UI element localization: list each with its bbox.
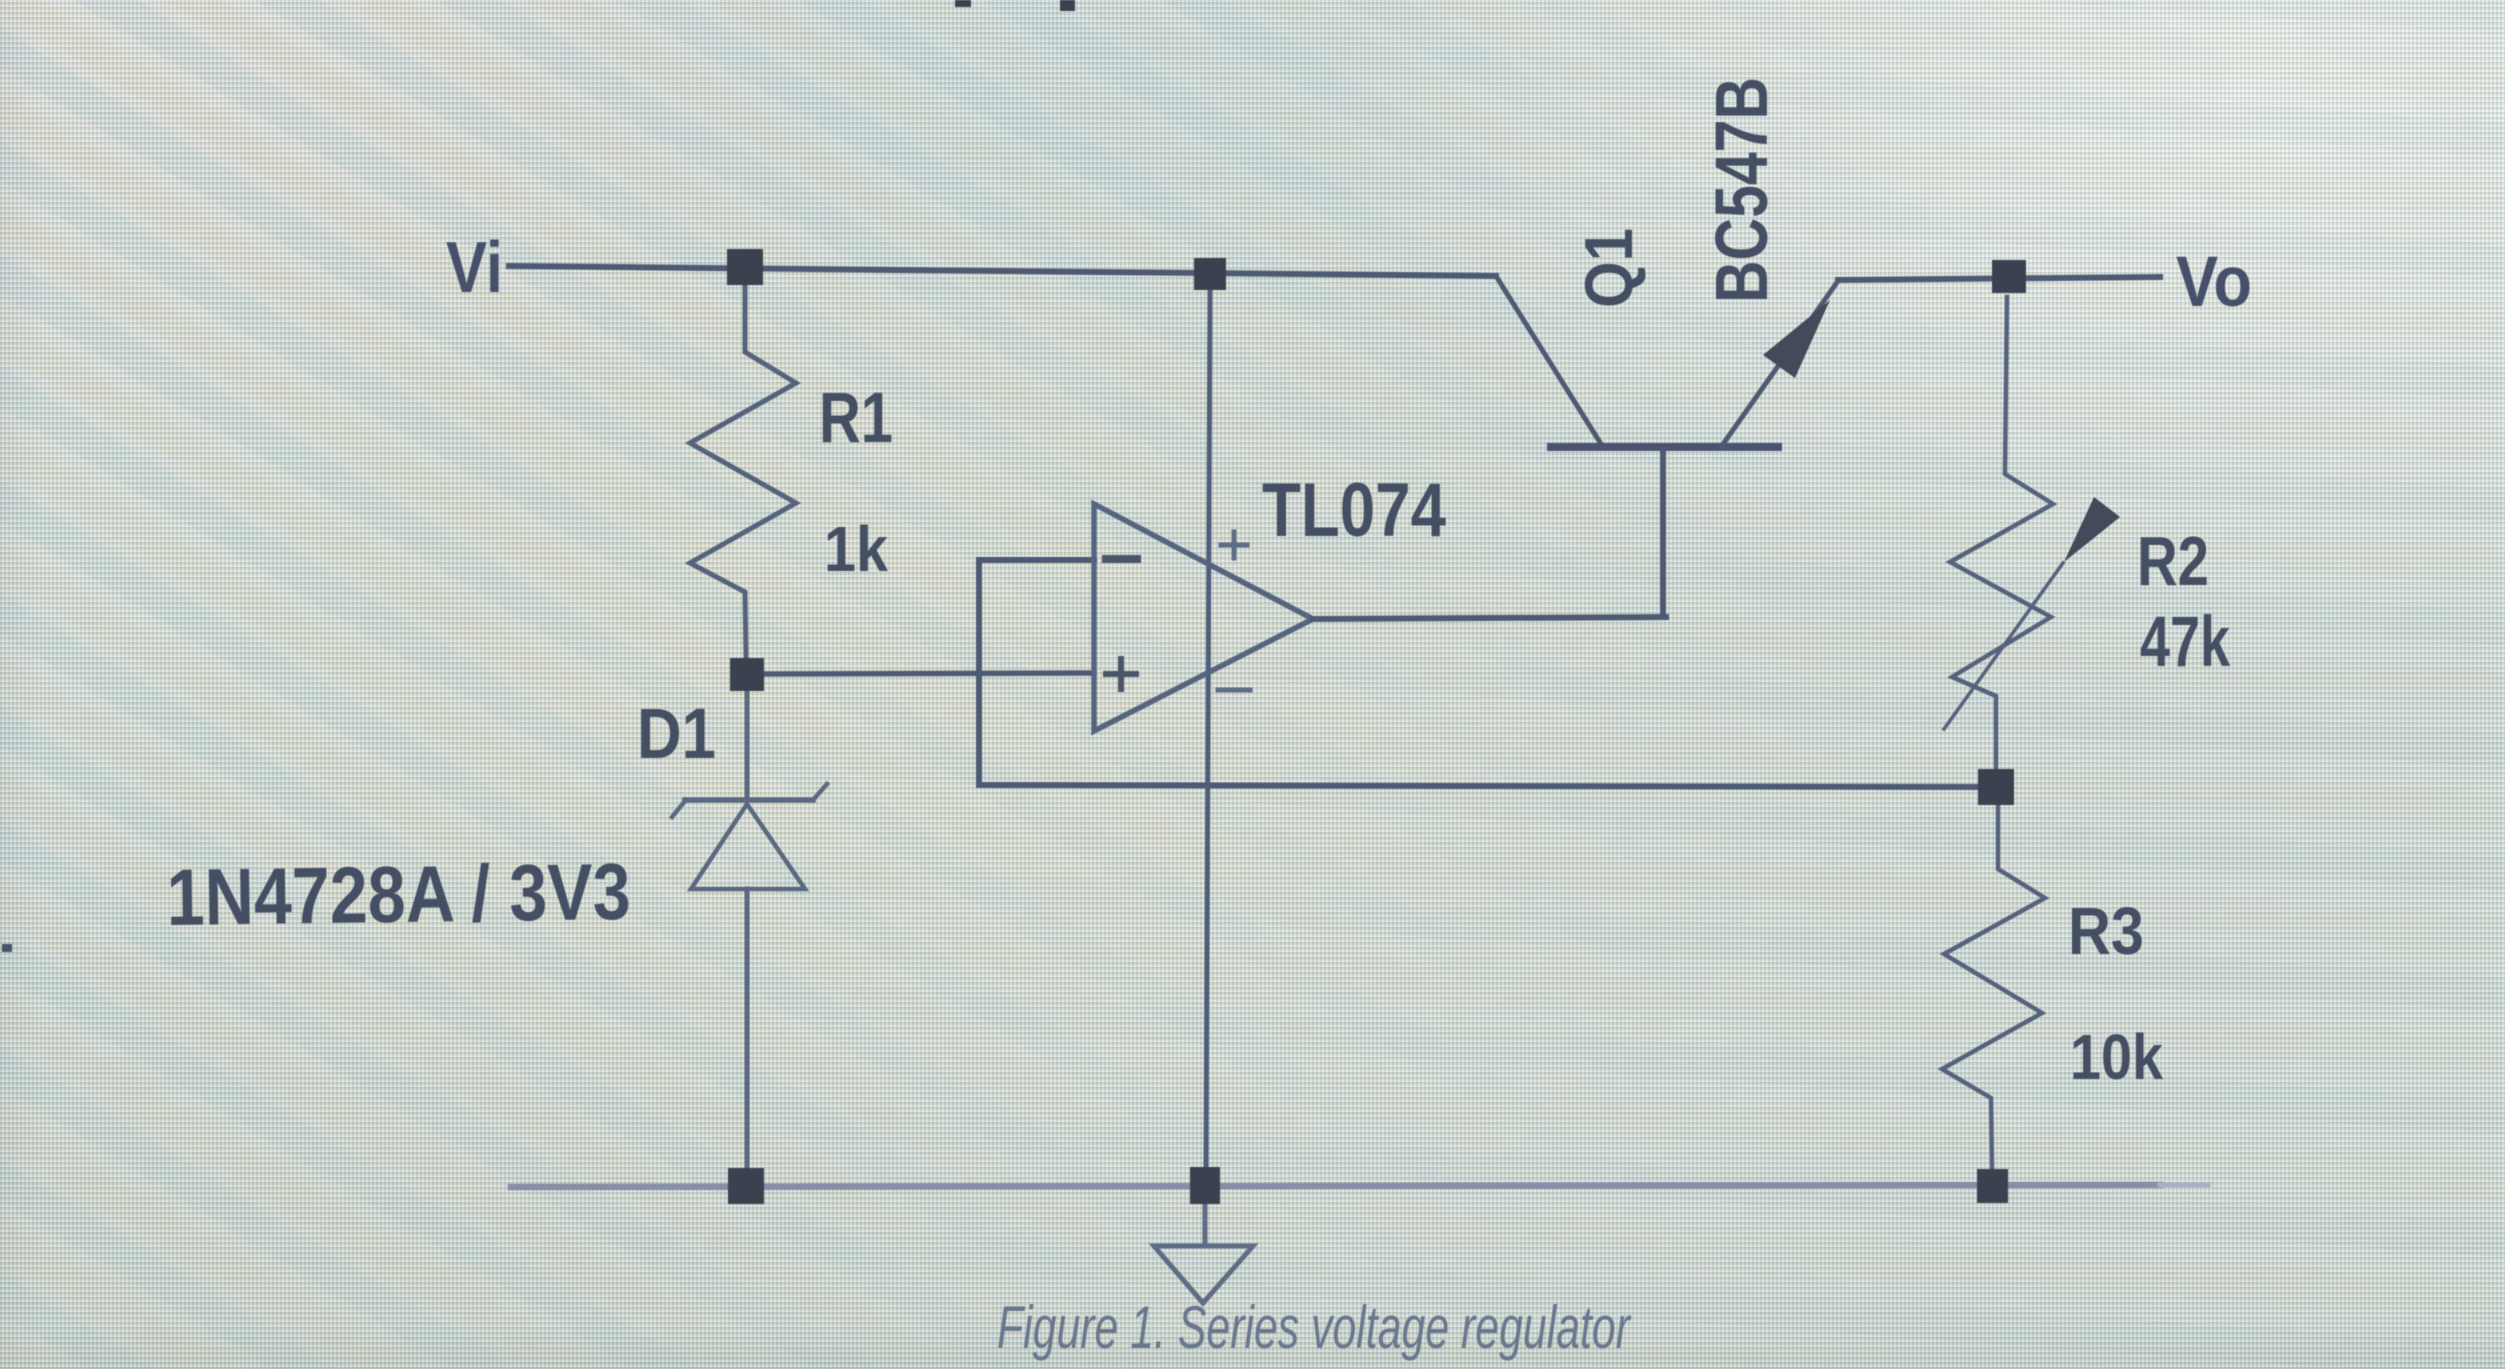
junction node R2/R3/feedback: [1978, 769, 2014, 805]
label R1: [819, 379, 893, 458]
svg-text:R3: R3: [2068, 894, 2144, 969]
top edge artifact marks: [955, 0, 1075, 11]
node Vo label: [2176, 243, 2252, 322]
value 47k: [2140, 603, 2230, 682]
wire inverting feedback loop: [979, 560, 1981, 787]
node Vi label: [446, 228, 503, 308]
label R2: [2137, 522, 2209, 600]
svg-text:1N4728A / 3V3: 1N4728A / 3V3: [166, 847, 631, 942]
zener diode D1: [672, 691, 827, 1168]
label R3: [2068, 894, 2144, 969]
label Q1: [1571, 228, 1647, 308]
junction node J1 (Vi/R1): [727, 249, 763, 285]
left edge artifact tick: [2, 944, 12, 952]
junction node supply/ground rail: [1190, 1167, 1220, 1204]
junction node Vo: [1992, 260, 2026, 293]
caption Figure 1: [997, 1294, 1631, 1361]
wire top rail right (emitter join to Vo): [1838, 277, 2160, 280]
resistor R3: [1942, 805, 2045, 1168]
junction node D1/ground rail: [728, 1168, 764, 1204]
label TL074: [1262, 468, 1446, 553]
junction node R3/ground rail: [1977, 1169, 2008, 1203]
transistor Q1: [1496, 276, 1838, 617]
value 1N4728A / 3V3: [166, 847, 631, 942]
svg-text:R1: R1: [819, 379, 893, 458]
svg-text:1k: 1k: [824, 513, 888, 585]
svg-text:BC547B: BC547B: [1700, 77, 1783, 303]
junction node J2 (rail/supply): [1194, 258, 1226, 290]
label BC547B: [1700, 77, 1783, 303]
svg-text:R2: R2: [2137, 522, 2209, 600]
potentiometer R2: [1944, 297, 2120, 770]
svg-text:10k: 10k: [2070, 1021, 2163, 1093]
svg-text:Figure 1. Series voltage regul: Figure 1. Series voltage regulator: [997, 1294, 1631, 1361]
value 1k: [824, 513, 888, 585]
wire op-amp output to base: [1313, 617, 1666, 619]
wire supply vertical: [1206, 290, 1210, 1168]
ground: [1154, 1204, 1253, 1303]
wire top rail left (Vi to base diagonal): [509, 266, 1496, 276]
svg-text:Vo: Vo: [2176, 243, 2252, 322]
value 10k: [2070, 1021, 2163, 1093]
svg-text:47k: 47k: [2140, 603, 2230, 682]
svg-text:Vi: Vi: [446, 228, 503, 308]
svg-text:Q1: Q1: [1571, 228, 1647, 308]
bottom rail: [511, 1185, 2208, 1187]
svg-text:D1: D1: [637, 695, 716, 774]
svg-text:TL074: TL074: [1262, 468, 1446, 553]
op-amp U1 TL074: [1094, 504, 1313, 731]
resistor R1: [690, 285, 796, 657]
wire noninverting input from D1 node: [765, 673, 1094, 674]
junction node J3 (R1/D1/+input): [730, 658, 764, 691]
label D1: [637, 695, 716, 774]
